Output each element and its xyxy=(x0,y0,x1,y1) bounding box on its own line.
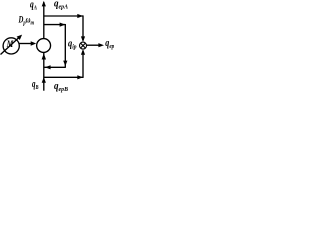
wire: leak A down to X-junction xyxy=(82,15,84,40)
motor M1 (circle with M) xyxy=(3,38,19,54)
wire: internal leakage into B line (horizontal) xyxy=(44,66,66,68)
wire: port A line (vertical up) xyxy=(43,2,45,39)
arrow left into B line xyxy=(45,65,51,69)
wire: port B line (vertical) xyxy=(43,52,45,90)
arrow up into node xyxy=(42,53,46,59)
variable-adjustment diagonal arrow through motor xyxy=(1,37,20,55)
arrow down xyxy=(63,61,67,67)
node: pump junction circle xyxy=(37,39,51,53)
arrow up into qepB junction xyxy=(42,77,46,83)
wire: internal leakage vertical xyxy=(64,24,66,67)
arrow down into X-junction xyxy=(81,36,85,42)
arrow into corner xyxy=(77,14,83,18)
wire: leak B up to X-junction xyxy=(82,51,84,78)
arrow up into X-junction xyxy=(81,49,85,55)
wire: external leakage B branch (horizontal) xyxy=(44,76,83,78)
wire: external leakage A branch (horizontal) xyxy=(44,15,83,17)
arrow right into corner xyxy=(77,75,83,79)
X-junction (circle with cross) xyxy=(80,42,87,49)
arrow right qep xyxy=(98,43,104,47)
arrow right into corner xyxy=(60,23,66,27)
arrow qA up xyxy=(42,1,46,7)
wire: internal leakage qip branch (horizontal from A line) xyxy=(44,24,66,26)
wire: total external leakage output xyxy=(87,44,100,46)
wire: motor output to node xyxy=(19,43,31,45)
